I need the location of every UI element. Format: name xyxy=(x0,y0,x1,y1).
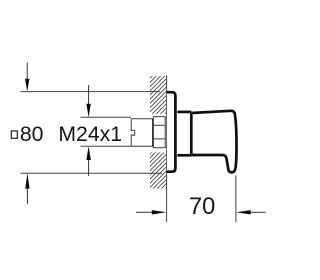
label square symbol of □80 xyxy=(11,131,17,138)
dimension M24 top extension line xyxy=(81,116,132,118)
dimension M24 top arrow xyxy=(86,85,90,117)
dimension M24 bottom extension line xyxy=(81,145,132,147)
handle lever body xyxy=(191,111,236,173)
wall front face line xyxy=(166,75,168,222)
wall hatch xyxy=(140,19,205,248)
svg-text:80: 80 xyxy=(20,123,44,146)
dimension 70 left arrow xyxy=(136,210,166,214)
handle neck top line xyxy=(177,111,191,114)
dimension M24 bottom arrow xyxy=(86,146,90,176)
dimension 80 bottom extension line xyxy=(21,172,163,174)
dimension 80 top extension line xyxy=(21,91,161,93)
dimension 70 right arrow xyxy=(236,210,266,214)
svg-text:70: 70 xyxy=(189,194,215,220)
escutcheon plate xyxy=(167,92,176,172)
handle neck bottom line xyxy=(177,154,191,157)
valve stem nut xyxy=(153,117,165,148)
concealed valve cartridge body xyxy=(131,119,153,147)
dimension 80 top arrow xyxy=(25,63,29,92)
svg-text:M24x1: M24x1 xyxy=(58,123,122,146)
dimension 70 right extension line xyxy=(235,176,237,223)
dimension 80 bottom arrow xyxy=(25,173,29,204)
